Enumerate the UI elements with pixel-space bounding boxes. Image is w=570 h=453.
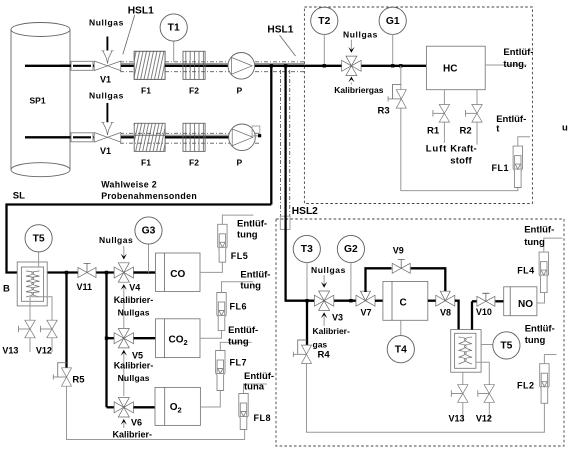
svg-text:Luft: Luft bbox=[426, 144, 448, 155]
svg-text:T4: T4 bbox=[395, 344, 407, 355]
svg-text:V3: V3 bbox=[332, 313, 343, 323]
svg-text:Entlüf-: Entlüf- bbox=[524, 225, 554, 236]
svg-text:F2: F2 bbox=[189, 158, 199, 168]
svg-text:B: B bbox=[3, 284, 10, 295]
svg-text:Kalibrier-: Kalibrier- bbox=[114, 295, 154, 305]
svg-text:V13: V13 bbox=[449, 414, 465, 424]
svg-text:Entlüf-: Entlüf- bbox=[525, 324, 555, 335]
svg-text:R5: R5 bbox=[72, 374, 85, 385]
svg-text:tung: tung bbox=[524, 237, 545, 248]
svg-text:HSL2: HSL2 bbox=[292, 206, 318, 217]
svg-text:V6: V6 bbox=[131, 418, 142, 428]
svg-text:V12: V12 bbox=[36, 346, 52, 356]
svg-text:gas: gas bbox=[313, 339, 328, 349]
svg-text:Nullgas: Nullgas bbox=[89, 17, 124, 27]
svg-text:FL8: FL8 bbox=[254, 413, 272, 423]
svg-text:Nullgas: Nullgas bbox=[343, 29, 378, 39]
svg-text:tung: tung bbox=[525, 335, 546, 346]
svg-text:Entlüf-: Entlüf- bbox=[496, 114, 526, 125]
svg-text:F1: F1 bbox=[141, 86, 151, 96]
svg-text:NO: NO bbox=[518, 299, 533, 310]
svg-text:V10: V10 bbox=[476, 307, 492, 317]
svg-text:Entlüf-: Entlüf- bbox=[244, 371, 274, 382]
svg-text:T5: T5 bbox=[500, 341, 512, 352]
svg-text:R3: R3 bbox=[378, 106, 390, 117]
svg-text:V7: V7 bbox=[361, 308, 372, 318]
svg-text:tung: tung bbox=[228, 337, 249, 348]
svg-text:F1: F1 bbox=[141, 158, 151, 168]
svg-text:HSL1: HSL1 bbox=[267, 24, 293, 35]
svg-text:T3: T3 bbox=[301, 244, 313, 255]
svg-text:FL7: FL7 bbox=[230, 358, 248, 368]
svg-text:Kraft-: Kraft- bbox=[450, 144, 477, 155]
svg-text:Nullgas: Nullgas bbox=[99, 235, 133, 245]
svg-text:Kalibrier-: Kalibrier- bbox=[313, 326, 350, 336]
svg-text:u: u bbox=[562, 123, 568, 134]
svg-text:Entlüf-: Entlüf- bbox=[503, 47, 533, 58]
svg-text:T5: T5 bbox=[33, 234, 45, 245]
svg-text:CO: CO bbox=[170, 269, 185, 280]
svg-text:V8: V8 bbox=[440, 308, 451, 318]
svg-text:V13: V13 bbox=[2, 346, 18, 356]
svg-text:Probenahmensonden: Probenahmensonden bbox=[101, 191, 197, 201]
svg-text:Nullgas: Nullgas bbox=[118, 373, 150, 383]
svg-text:FL4: FL4 bbox=[517, 265, 535, 275]
svg-text:V11: V11 bbox=[77, 282, 93, 292]
svg-text:tuna: tuna bbox=[244, 382, 265, 393]
svg-text:V5: V5 bbox=[132, 351, 143, 361]
svg-text:R2: R2 bbox=[460, 125, 472, 136]
svg-text:T1: T1 bbox=[168, 23, 180, 34]
svg-text:Entlüf-: Entlüf- bbox=[237, 219, 267, 230]
svg-text:Entlüf-: Entlüf- bbox=[240, 269, 270, 280]
svg-text:SL: SL bbox=[13, 191, 25, 202]
svg-text:V12: V12 bbox=[476, 414, 492, 424]
svg-text:Nullgas: Nullgas bbox=[89, 90, 124, 100]
svg-text:HC: HC bbox=[443, 64, 457, 75]
svg-text:FL1: FL1 bbox=[492, 163, 510, 173]
svg-text:FL6: FL6 bbox=[230, 302, 248, 312]
svg-text:Kalibrier-: Kalibrier- bbox=[113, 430, 153, 440]
svg-text:R1: R1 bbox=[427, 125, 440, 136]
svg-text:Wahlweise 2: Wahlweise 2 bbox=[101, 179, 157, 189]
svg-text:T2: T2 bbox=[318, 16, 330, 27]
svg-text:Kalibriergas: Kalibriergas bbox=[334, 85, 383, 95]
svg-text:G3: G3 bbox=[142, 226, 156, 237]
svg-text:Nullgas: Nullgas bbox=[118, 307, 150, 317]
svg-text:HSL1: HSL1 bbox=[128, 5, 154, 16]
svg-text:tung.: tung. bbox=[503, 59, 526, 70]
svg-text:Entlüf-: Entlüf- bbox=[228, 325, 258, 336]
svg-text:tung: tung bbox=[240, 281, 261, 292]
svg-text:V1: V1 bbox=[100, 146, 111, 156]
svg-text:V4: V4 bbox=[129, 282, 140, 292]
svg-text:SP1: SP1 bbox=[30, 95, 46, 105]
svg-text:G2: G2 bbox=[344, 244, 358, 255]
svg-text:FL2: FL2 bbox=[517, 381, 535, 391]
svg-text:C: C bbox=[400, 298, 407, 309]
svg-text:Nullgas: Nullgas bbox=[311, 265, 346, 275]
svg-text:V9: V9 bbox=[393, 245, 404, 255]
svg-text:stoff: stoff bbox=[450, 155, 472, 166]
svg-text:G1: G1 bbox=[386, 16, 400, 27]
svg-text:R4: R4 bbox=[318, 350, 331, 361]
svg-text:V1: V1 bbox=[100, 75, 111, 85]
svg-text:F2: F2 bbox=[189, 86, 199, 96]
svg-text:Kalibrier-: Kalibrier- bbox=[114, 361, 154, 371]
svg-text:FL5: FL5 bbox=[231, 251, 249, 261]
svg-text:P: P bbox=[237, 86, 243, 96]
svg-text:tung: tung bbox=[237, 230, 258, 241]
svg-text:P: P bbox=[237, 158, 243, 168]
